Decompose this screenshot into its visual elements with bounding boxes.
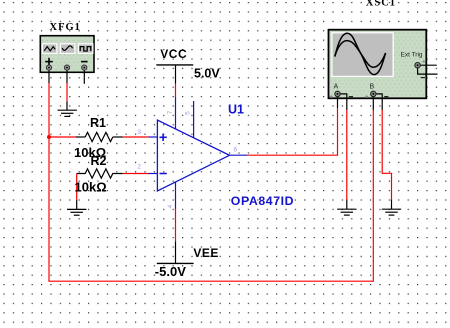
wire: VCC to op-amp pin7 bbox=[175, 84, 177, 99]
wire: scope A- down to ground bbox=[346, 110, 348, 200]
svg-text:VEE: VEE bbox=[193, 246, 219, 260]
XSC1 screen bbox=[331, 32, 394, 77]
XSC1 channel B terminals bbox=[365, 91, 388, 110]
svg-text:5: 5 bbox=[185, 111, 192, 115]
XFG1 terminal + bbox=[46, 65, 51, 83]
svg-text:OPA847ID: OPA847ID bbox=[231, 194, 294, 208]
op-amp pin 6 (output) bbox=[230, 147, 248, 156]
svg-text:B: B bbox=[370, 84, 375, 91]
svg-text:U1: U1 bbox=[228, 103, 244, 117]
svg-text:R2: R2 bbox=[91, 154, 107, 168]
wire: R1 to op-amp pin3 bbox=[123, 136, 149, 138]
XSC1 channel A label bbox=[334, 84, 339, 91]
svg-text:7: 7 bbox=[167, 110, 174, 114]
XFG1 minus label bbox=[81, 61, 88, 63]
op-amp pin 4 (V-) bbox=[167, 182, 175, 208]
op-amp pin 3 (non-inverting input) bbox=[137, 129, 166, 141]
op-amp pin 2 (inverting input) bbox=[137, 164, 166, 174]
svg-text:5.0V: 5.0V bbox=[194, 66, 220, 80]
node junction at R1 feed bbox=[47, 135, 51, 139]
op-amp pin 5 bbox=[185, 101, 194, 138]
XFG1 triangle-wave button bbox=[42, 43, 58, 54]
svg-text:3: 3 bbox=[137, 129, 141, 136]
XFG1 sine-wave button bbox=[60, 43, 76, 54]
wire: XFG1 + output vertical down left side bbox=[48, 83, 50, 281]
XSC1 screen trace channel A (large) bbox=[335, 33, 386, 74]
resistor R2 bbox=[75, 154, 123, 194]
svg-text:XSC1: XSC1 bbox=[366, 0, 396, 8]
svg-text:2: 2 bbox=[137, 164, 141, 171]
XFG1 square-wave button bbox=[78, 43, 94, 54]
wire: scope B+ vertical bbox=[372, 110, 374, 282]
ground under scope A- bbox=[337, 200, 356, 215]
ground under R2 bbox=[67, 200, 86, 215]
op-amp part number label OPA847ID bbox=[231, 194, 294, 208]
XSC1 Ext Trig label bbox=[401, 52, 423, 59]
op-amp pin 7 (V+) bbox=[167, 98, 175, 130]
wire: R2 to op-amp pin2 bbox=[123, 173, 149, 175]
XSC1 channel B label bbox=[370, 84, 375, 91]
ground under scope B- bbox=[382, 200, 401, 215]
resistor R1 bbox=[74, 116, 123, 160]
ground under XFG1 bbox=[58, 102, 77, 117]
VCC power symbol bbox=[156, 47, 220, 84]
function generator XFG1 body bbox=[40, 36, 94, 73]
wire: op-amp pin4 to VEE bbox=[175, 208, 177, 242]
wire: bottom horizontal run bbox=[48, 280, 373, 282]
wire: XFG1 common to ground bbox=[66, 83, 68, 102]
XFG1 terminal common bbox=[64, 65, 69, 83]
svg-text:10kΩ: 10kΩ bbox=[75, 179, 107, 194]
VEE power symbol bbox=[155, 242, 219, 279]
XSC1 channel A terminals bbox=[330, 91, 353, 110]
svg-text:Ext Trig: Ext Trig bbox=[401, 52, 423, 59]
oscilloscope XSC1 body bbox=[329, 30, 427, 99]
svg-text:6: 6 bbox=[234, 147, 238, 154]
wire: R2 left leg down to ground bbox=[76, 174, 78, 201]
svg-text:R1: R1 bbox=[90, 116, 106, 130]
svg-text:VCC: VCC bbox=[160, 47, 187, 61]
wire: source to R1 bbox=[49, 136, 77, 138]
wire: op-amp output to scope A bbox=[247, 108, 337, 155]
svg-text:XFG1: XFG1 bbox=[50, 22, 81, 33]
svg-text:-5.0V: -5.0V bbox=[155, 264, 186, 279]
XFG1 reference label bbox=[50, 22, 81, 33]
wire: scope B- down to ground with jog bbox=[382, 110, 391, 200]
XFG1 plus label bbox=[45, 58, 53, 66]
op-amp U1 reference label bbox=[228, 103, 244, 117]
XFG1 terminal - bbox=[82, 65, 87, 84]
op-amp U1 triangle bbox=[157, 120, 229, 191]
XSC1 reference label bbox=[366, 0, 396, 8]
svg-text:A: A bbox=[334, 84, 339, 91]
svg-text:4: 4 bbox=[167, 204, 174, 208]
XSC1 screen trace channel B (small) bbox=[335, 41, 386, 68]
XSC1 ext trig terminal bbox=[415, 60, 438, 78]
